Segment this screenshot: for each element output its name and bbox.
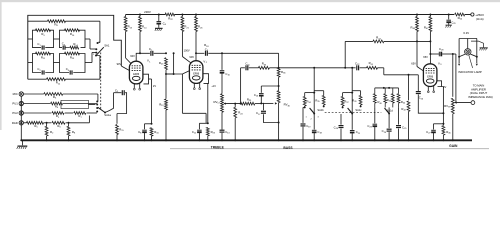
svg-text:2V: 2V	[153, 84, 156, 88]
svg-text:R42: R42	[401, 107, 406, 112]
svg-text:2V: 2V	[443, 86, 446, 89]
svg-text:90V: 90V	[189, 55, 194, 59]
svg-text:C25: C25	[402, 125, 407, 130]
svg-text:SA1b: SA1b	[317, 108, 324, 112]
svg-text:C29: C29	[451, 20, 456, 25]
svg-text:R2: R2	[50, 130, 54, 135]
svg-text:SA1: SA1	[104, 43, 110, 47]
svg-text:R26: R26	[198, 25, 203, 30]
svg-text:C1: C1	[37, 42, 41, 47]
svg-text:SA1a: SA1a	[104, 113, 111, 117]
svg-text:C27: C27	[426, 130, 431, 135]
svg-text:IMPEDANCE 1MΩ): IMPEDANCE 1MΩ)	[468, 95, 492, 99]
svg-text:R9: R9	[41, 32, 45, 37]
svg-text:1: 1	[305, 117, 307, 119]
svg-text:R19: R19	[159, 102, 164, 107]
svg-text:BASS: BASS	[283, 146, 293, 150]
svg-text:RV17: RV17	[213, 100, 220, 105]
svg-text:R8: R8	[72, 130, 76, 135]
svg-text:EF86: EF86	[427, 75, 434, 78]
svg-text:65V: 65V	[423, 55, 428, 59]
svg-text:3: 3	[317, 117, 319, 119]
svg-text:R43: R43	[376, 36, 381, 41]
svg-text:C24: C24	[382, 129, 387, 134]
svg-text:C23: C23	[367, 124, 372, 129]
svg-text:R8: R8	[54, 22, 58, 27]
svg-text:R29: R29	[247, 97, 252, 102]
svg-text:R37: R37	[344, 99, 349, 104]
svg-text:R33: R33	[262, 62, 267, 67]
svg-text:R39: R39	[352, 98, 357, 103]
svg-text:TREBLE: TREBLE	[211, 146, 225, 150]
svg-text:RV30: RV30	[284, 103, 291, 108]
svg-text:R35: R35	[315, 98, 320, 103]
svg-text:C4: C4	[66, 67, 70, 72]
svg-text:C26: C26	[419, 96, 424, 101]
svg-text:C16: C16	[254, 93, 259, 98]
svg-text:R41: R41	[369, 61, 374, 66]
svg-text:R18: R18	[204, 43, 209, 48]
svg-text:R36: R36	[281, 70, 286, 75]
svg-text:R16: R16	[154, 130, 159, 135]
svg-text:C18: C18	[317, 130, 322, 135]
svg-text:2: 2	[310, 119, 312, 121]
svg-text:INDICATOR LAMP: INDICATOR LAMP	[458, 70, 482, 74]
svg-text:R22: R22	[168, 17, 173, 22]
svg-text:PU1: PU1	[12, 102, 18, 106]
svg-text:R7: R7	[78, 114, 82, 119]
svg-text:EF86: EF86	[133, 73, 140, 76]
svg-text:R11: R11	[41, 56, 46, 61]
svg-text:R34: R34	[307, 99, 312, 104]
svg-text:GAIN: GAIN	[449, 144, 458, 148]
svg-text:C19: C19	[306, 124, 311, 129]
svg-text:R1: R1	[56, 114, 60, 119]
svg-text:2: 2	[93, 54, 95, 56]
svg-text:3: 3	[440, 64, 442, 66]
svg-text:SA1c: SA1c	[355, 108, 362, 112]
svg-text:R45: R45	[387, 98, 392, 103]
svg-text:R6: R6	[57, 124, 61, 129]
svg-text:C6: C6	[163, 21, 167, 26]
svg-text:(3mA): (3mA)	[476, 17, 484, 21]
svg-text:R23: R23	[211, 130, 216, 135]
svg-text:MIC: MIC	[13, 92, 18, 96]
svg-text:C10: C10	[225, 72, 230, 77]
svg-text:C15: C15	[245, 62, 250, 67]
svg-text:R4: R4	[55, 105, 59, 110]
svg-text:C13: C13	[225, 130, 230, 135]
svg-text:65V: 65V	[411, 61, 416, 65]
svg-text:100V: 100V	[184, 48, 190, 52]
svg-text:R3: R3	[53, 95, 57, 100]
svg-text:2: 2	[206, 62, 208, 64]
svg-text:C17: C17	[256, 111, 261, 116]
svg-text:C12: C12	[192, 130, 197, 135]
svg-text:C2: C2	[37, 67, 41, 72]
svg-text:R21: R21	[184, 25, 189, 30]
svg-text:+1V: +1V	[211, 85, 216, 88]
svg-text:C22: C22	[355, 61, 360, 66]
svg-text:R24: R24	[238, 111, 243, 116]
svg-text:R40: R40	[378, 100, 383, 105]
svg-text:R50: R50	[458, 16, 463, 21]
svg-text:R13: R13	[70, 56, 75, 61]
svg-text:C21: C21	[356, 130, 361, 135]
svg-text:230V: 230V	[144, 10, 151, 14]
svg-text:R12: R12	[56, 81, 61, 86]
svg-text:90V: 90V	[117, 62, 122, 66]
svg-text:R10: R10	[70, 32, 75, 37]
svg-text:EF86: EF86	[193, 72, 200, 75]
svg-text:C8: C8	[138, 130, 142, 135]
svg-text:1: 1	[149, 61, 151, 63]
svg-text:R44: R44	[401, 100, 406, 105]
svg-text:90V: 90V	[130, 54, 135, 58]
svg-text:SA1d: SA1d	[387, 109, 394, 113]
svg-text:R15: R15	[119, 128, 124, 133]
svg-text:R14: R14	[142, 25, 147, 30]
svg-text:6.3V: 6.3V	[463, 31, 469, 35]
svg-text:RV39: RV39	[444, 104, 451, 109]
svg-text:R46: R46	[446, 130, 451, 135]
svg-text:C20: C20	[334, 125, 339, 130]
svg-text:C9: C9	[205, 47, 209, 52]
svg-text:C28: C28	[439, 47, 444, 52]
svg-text:R25: R25	[159, 61, 164, 66]
svg-text:RAD: RAD	[12, 121, 18, 125]
svg-text:PU2: PU2	[12, 111, 18, 115]
svg-text:R14: R14	[73, 42, 78, 47]
svg-text:R13: R13	[128, 25, 133, 30]
